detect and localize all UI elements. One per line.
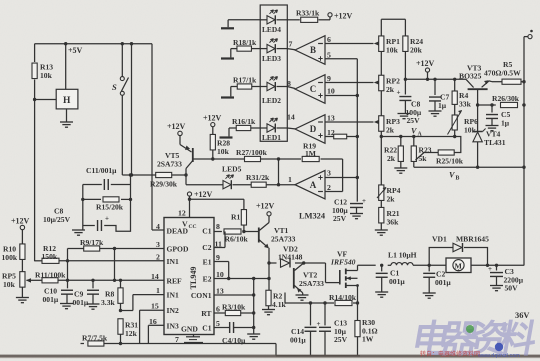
- resistor R28 10k: [210, 134, 230, 160]
- label VT1: [274, 226, 289, 235]
- svg-text:R3/10k: R3/10k: [222, 303, 246, 312]
- wire C plus row: [325, 87, 359, 98]
- wire R14 row left leg: [284, 293, 286, 304]
- svg-text:4.1k: 4.1k: [272, 300, 286, 309]
- svg-text:H: H: [63, 96, 71, 106]
- svg-text:2k: 2k: [387, 154, 396, 163]
- svg-text:8: 8: [216, 222, 220, 231]
- wire C11-R15 left leg: [82, 185, 84, 226]
- wire LED5 row: [186, 184, 295, 186]
- switch S: [112, 44, 129, 175]
- label pin7 B: [289, 40, 293, 49]
- ground RP5: [16, 298, 29, 303]
- resistor R17/1k: [233, 76, 257, 90]
- svg-text:3: 3: [156, 240, 160, 249]
- wire bottom rail left: [104, 343, 276, 345]
- svg-text:C: C: [310, 84, 317, 94]
- svg-text:LED1: LED1: [262, 133, 281, 142]
- diode VD1 MBR1645: [432, 235, 489, 253]
- svg-text:E2: E2: [203, 275, 212, 284]
- ground LED4: [221, 27, 234, 29]
- resistor R31 12k: [118, 319, 138, 345]
- capacitor C1 001u: [376, 265, 406, 291]
- resistor R15/20k: [81, 197, 132, 212]
- svg-text:R16/1k: R16/1k: [232, 117, 256, 126]
- label 25A733 VT1: [271, 235, 296, 244]
- svg-text:14: 14: [151, 272, 159, 281]
- wire VT5 emitter drop: [184, 169, 187, 185]
- resistor R29/30k: [150, 172, 178, 188]
- svg-text:1: 1: [156, 286, 160, 295]
- svg-text:GND: GND: [181, 325, 198, 334]
- wire IN2 row 15: [140, 310, 164, 343]
- svg-text:7: 7: [175, 335, 179, 344]
- resistor R22 2k: [384, 137, 403, 168]
- resistor R23 5k: [411, 137, 432, 168]
- label VD2: [283, 245, 298, 254]
- svg-text:14: 14: [287, 113, 295, 122]
- IC U1 TL949 box: [164, 218, 214, 335]
- svg-text:10k: 10k: [386, 45, 399, 54]
- wire gate Z: [304, 263, 340, 283]
- svg-text:10k: 10k: [3, 280, 16, 289]
- svg-text:A: A: [310, 180, 317, 190]
- LED LED5: [222, 165, 242, 190]
- label VT5: [165, 151, 180, 160]
- wire R9-REF drop: [114, 249, 116, 281]
- motor M: [446, 258, 471, 273]
- svg-text:50V: 50V: [505, 284, 519, 293]
- resistor R2 4.1k: [266, 290, 287, 309]
- wire +12V branch: [190, 199, 244, 210]
- svg-text:C4/10μ: C4/10μ: [222, 336, 246, 345]
- svg-text:R14/10k: R14/10k: [329, 293, 357, 302]
- transistor VT2: [294, 263, 304, 295]
- IC pin 7 ground: [175, 335, 203, 345]
- resistor R14/10k: [329, 293, 357, 306]
- svg-text:470Ω/0.5W: 470Ω/0.5W: [484, 69, 521, 78]
- wire bottom rail jog: [276, 344, 360, 356]
- svg-text:R17/1k: R17/1k: [233, 76, 257, 85]
- ground LED2: [221, 96, 234, 98]
- wire IN1 row 1: [119, 295, 164, 313]
- resistor R1: [231, 210, 247, 232]
- wire RP5 down: [21, 287, 23, 297]
- wire LED2 left: [231, 87, 260, 97]
- wire C11-R15 right leg: [129, 173, 132, 199]
- svg-text:1M: 1M: [305, 149, 316, 158]
- wire A output drop: [277, 159, 280, 186]
- svg-text:25A733: 25A733: [271, 235, 296, 244]
- wire B plus row: [325, 51, 357, 60]
- wire VT1 emitter column: [267, 248, 270, 292]
- op-amp B: [295, 36, 325, 65]
- resistor R27/100k: [236, 148, 268, 162]
- svg-text:www.dqwxzl.com: www.dqwxzl.com: [477, 353, 520, 359]
- svg-text:LED2: LED2: [262, 96, 281, 105]
- svg-text:6: 6: [327, 35, 331, 44]
- svg-text:LED3: LED3: [262, 54, 281, 63]
- wire LED3 left: [231, 49, 260, 58]
- svg-text:1μ: 1μ: [501, 118, 510, 127]
- ground C8 100u: [398, 114, 411, 119]
- LED LED3: [260, 39, 287, 63]
- svg-text:25V: 25V: [334, 335, 348, 344]
- mosfet VF IRF540: [340, 265, 359, 303]
- ground C4: [247, 328, 260, 340]
- svg-text:MBR1645: MBR1645: [456, 235, 489, 244]
- svg-text:3.3k: 3.3k: [101, 298, 115, 307]
- capacitor C8 10u: [43, 207, 109, 232]
- svg-text:R1: R1: [231, 213, 240, 222]
- svg-text:10k: 10k: [40, 71, 53, 80]
- power terminal +12V VT5: [167, 122, 186, 136]
- wire CON1 row: [214, 293, 255, 296]
- wire R10-RP5: [21, 260, 23, 272]
- svg-text:1: 1: [288, 175, 292, 184]
- wire R14 row: [285, 301, 359, 304]
- ground VT2: [296, 295, 309, 300]
- svg-text:36k: 36k: [387, 217, 400, 226]
- IC GND label: [181, 325, 198, 334]
- wire VB row: [414, 166, 524, 169]
- svg-text:+: +: [317, 320, 321, 328]
- wire IN3 row 16: [148, 325, 164, 343]
- power terminal +12V Vcc: [187, 190, 212, 201]
- wire R9 left leg: [66, 249, 69, 281]
- svg-text:2k: 2k: [386, 125, 395, 134]
- svg-text:LM324: LM324: [299, 212, 326, 221]
- LED LED4: [260, 10, 287, 34]
- wire VD2 row: [269, 261, 305, 264]
- ground LED1: [220, 136, 233, 138]
- wire R33 row: [287, 17, 330, 20]
- wire supply row: [404, 78, 466, 81]
- svg-text:001μ: 001μ: [43, 295, 59, 304]
- svg-text:9: 9: [216, 253, 220, 262]
- svg-text:IN3: IN3: [167, 321, 179, 330]
- wire plus bus V1: [356, 59, 358, 202]
- capacitor C10/001u: [43, 280, 74, 304]
- capacitor C13 10u: [317, 303, 348, 356]
- resistor R7/7.5k: [81, 334, 108, 347]
- LED LED1: [260, 118, 287, 142]
- svg-text:C1: C1: [202, 323, 211, 332]
- power terminal +12V left: [11, 217, 30, 245]
- svg-text:E1: E1: [203, 258, 212, 267]
- resistor D plus series: [334, 134, 347, 139]
- op-amp A: [295, 170, 325, 199]
- ground C2: [423, 293, 436, 298]
- svg-text:1W: 1W: [362, 335, 374, 344]
- regulator VT4 TL431: [473, 129, 486, 168]
- capacitor C9/001u: [73, 280, 100, 307]
- svg-text:R15/20k: R15/20k: [96, 203, 124, 212]
- svg-text:10k: 10k: [464, 125, 477, 134]
- svg-text:+5V: +5V: [68, 46, 83, 55]
- IC pin 2 IN1: [156, 252, 179, 266]
- node VB: [449, 171, 460, 182]
- svg-text:+12V: +12V: [194, 190, 213, 199]
- svg-text:150k: 150k: [42, 252, 58, 261]
- power terminal +12V supply: [416, 59, 435, 79]
- label 1N4148: [278, 252, 303, 261]
- ground R2: [262, 310, 275, 315]
- wire E2 row: [214, 278, 269, 280]
- ground C1: [375, 292, 388, 297]
- svg-text:+12V: +12V: [256, 202, 275, 211]
- svg-text:5: 5: [327, 51, 331, 60]
- svg-text:9: 9: [327, 74, 331, 83]
- svg-text:10k: 10k: [217, 147, 230, 156]
- IC pin 5 C1b: [202, 319, 220, 333]
- wire +5V rail: [35, 42, 152, 45]
- svg-text:100k: 100k: [2, 253, 18, 262]
- inductor L1 10uH: [388, 251, 417, 266]
- IC pin 14 REF: [151, 272, 182, 286]
- svg-text:转自：电器维修资料网: 转自：电器维修资料网: [420, 350, 480, 358]
- op-amp D: [295, 115, 325, 144]
- ground C5: [486, 126, 499, 131]
- svg-text:+: +: [105, 215, 109, 223]
- wire C minus row: [325, 74, 379, 85]
- resistor R33/1k: [296, 9, 320, 23]
- svg-text:+12V: +12V: [416, 59, 435, 68]
- IC pin 9 E1: [203, 253, 220, 267]
- power label +5V: [68, 46, 83, 55]
- wire RP top link: [381, 18, 405, 20]
- svg-text:C2: C2: [202, 243, 211, 252]
- wire D out: [287, 127, 295, 130]
- svg-text:LED4: LED4: [262, 25, 281, 34]
- power terminal +12V VT1: [256, 202, 275, 223]
- resistor R26/30k: [492, 94, 520, 108]
- capacitor C14 001u: [290, 303, 317, 356]
- IC pin 6 RT: [201, 305, 220, 319]
- wire D minus row: [325, 114, 379, 125]
- svg-text:001μ: 001μ: [73, 298, 89, 307]
- wire right rail: [522, 37, 528, 266]
- svg-text:DEAD: DEAD: [167, 226, 189, 235]
- svg-text:13: 13: [216, 287, 224, 296]
- svg-text:CC: CC: [189, 224, 197, 230]
- label IRF540: [330, 257, 356, 266]
- label VF: [337, 250, 347, 259]
- wire LED1 left: [229, 128, 260, 136]
- svg-text:2SA733: 2SA733: [157, 160, 182, 169]
- scan line bottom: [0, 355, 540, 359]
- svg-text:+12V: +12V: [11, 217, 30, 226]
- resistor R12: [42, 244, 60, 263]
- svg-text:15: 15: [151, 302, 159, 311]
- wire R27 row: [194, 157, 343, 191]
- op-amp C: [295, 75, 325, 104]
- IC label TL949: [189, 267, 198, 290]
- wire CON1 column: [252, 277, 255, 328]
- wire C out: [287, 87, 295, 89]
- wire pin5 row: [214, 326, 255, 329]
- svg-text:1μ: 1μ: [438, 101, 447, 110]
- svg-text:25V: 25V: [333, 214, 347, 223]
- svg-text:6: 6: [216, 305, 220, 314]
- label BO325: [459, 71, 482, 80]
- svg-text:BO325: BO325: [459, 71, 482, 80]
- svg-text:10μ/25V: 10μ/25V: [43, 215, 71, 224]
- resistor R30 0.1ohm: [355, 303, 378, 356]
- wire VT5 collector: [179, 136, 181, 145]
- svg-text:12k: 12k: [125, 329, 138, 338]
- resistor R5 470: [484, 60, 524, 84]
- svg-text:TL431: TL431: [484, 138, 506, 147]
- power terminal +12V R33: [328, 12, 353, 21]
- svg-text:R25/10k: R25/10k: [436, 156, 464, 165]
- svg-text:25V: 25V: [407, 116, 421, 125]
- svg-text:5: 5: [216, 319, 220, 328]
- resistor R25/10k: [416, 137, 464, 166]
- diode VD2 1N4148: [281, 259, 291, 268]
- wire LED4 left: [228, 20, 260, 27]
- svg-text:B: B: [456, 176, 460, 182]
- svg-text:2: 2: [156, 252, 160, 261]
- watermark dot green: [466, 325, 474, 333]
- svg-text:GPOD: GPOD: [167, 245, 189, 254]
- label pin8 C: [287, 79, 291, 88]
- label 2SA733 VT2: [299, 279, 324, 288]
- potentiometer RP5: [2, 272, 31, 290]
- svg-text:B: B: [310, 45, 316, 55]
- svg-text:16: 16: [149, 317, 157, 326]
- ground R21: [375, 230, 388, 235]
- svg-text:RT: RT: [201, 309, 211, 318]
- resistor R19 1M: [302, 142, 319, 162]
- freewheel loop VD1: [429, 248, 487, 266]
- resistor R6/10k: [224, 229, 248, 244]
- resistor R18/1k: [233, 38, 257, 51]
- wire GPOD row: [68, 247, 165, 250]
- svg-text:5k: 5k: [419, 154, 428, 163]
- capacitor C4/10u: [222, 322, 246, 345]
- ground C10: [60, 304, 73, 309]
- LED LED2: [260, 77, 287, 106]
- capacitor C3 2200u: [488, 265, 524, 293]
- resistor R21 36k: [379, 207, 400, 229]
- wire B minus row: [325, 35, 379, 46]
- wire motor row: [358, 264, 525, 267]
- resistor R8 3.3k: [101, 280, 123, 310]
- resistor R3/10k: [222, 303, 246, 316]
- resistor R10: [2, 244, 26, 262]
- IC pin 3 GPOD: [156, 240, 189, 254]
- ground C8 left: [72, 226, 85, 236]
- ground C9: [87, 304, 100, 309]
- LED column box: [260, 5, 287, 141]
- svg-text:IN1: IN1: [167, 257, 179, 266]
- svg-text:VD1: VD1: [432, 235, 447, 244]
- ground C7: [429, 111, 442, 116]
- wire RT row: [214, 312, 254, 314]
- svg-text:10: 10: [327, 87, 335, 96]
- wire A plus row: [325, 169, 359, 180]
- svg-text:IRF540: IRF540: [330, 257, 356, 266]
- ground LED3: [221, 57, 234, 59]
- svg-text:+: +: [397, 89, 401, 97]
- potentiometer RP2 2k: [379, 75, 400, 94]
- wire RP6 down: [453, 130, 456, 138]
- IC pin 8 C1: [202, 222, 220, 235]
- wire RP column: [380, 19, 383, 207]
- svg-text:R6/10k: R6/10k: [225, 235, 249, 244]
- label VT2: [303, 271, 318, 280]
- hall sensor H: [35, 44, 78, 122]
- capacitor C12 100u: [332, 197, 366, 223]
- svg-text:LED5: LED5: [222, 165, 242, 174]
- svg-text:+12V: +12V: [203, 114, 222, 123]
- transistor VT5: [180, 145, 193, 169]
- svg-text:R7/7.5k: R7/7.5k: [82, 334, 108, 343]
- resistor R31/2k: [246, 173, 270, 187]
- label VT4: [486, 130, 501, 139]
- svg-text:7: 7: [289, 40, 293, 49]
- ground C12: [350, 214, 363, 219]
- IC pin 1 IN1b: [156, 286, 179, 300]
- capacitor C11/001u: [83, 166, 131, 190]
- wire E1 row: [214, 262, 230, 281]
- IC pin 15 IN2: [151, 302, 179, 316]
- label TL431: [484, 138, 506, 147]
- wire pin11 stub: [214, 232, 225, 248]
- IC pin 12 Vcc: [178, 196, 197, 230]
- wire switch row: [122, 173, 186, 176]
- svg-text:R31/2k: R31/2k: [246, 173, 270, 182]
- label pin14 D: [287, 113, 295, 122]
- svg-text:13: 13: [327, 114, 335, 123]
- svg-text:001μ: 001μ: [290, 335, 306, 344]
- svg-text:R33/1k: R33/1k: [296, 9, 320, 18]
- wire left rail: [33, 44, 36, 262]
- resistor R4 33k: [452, 79, 471, 108]
- transistor VT1: [259, 223, 269, 249]
- svg-text:2k: 2k: [387, 195, 396, 204]
- svg-text:20k: 20k: [410, 45, 423, 54]
- watermark small text: [420, 350, 520, 359]
- potentiometer RP1 10k: [379, 36, 400, 54]
- ground R22: [394, 168, 407, 173]
- transistor VT3 BO325: [466, 79, 492, 89]
- resistor R11/100k: [35, 271, 66, 283]
- svg-text:33k: 33k: [459, 99, 472, 108]
- svg-text:R26/30k: R26/30k: [492, 94, 520, 103]
- label 36V: [515, 311, 529, 320]
- svg-text:1N4148: 1N4148: [278, 252, 303, 261]
- svg-text:D: D: [310, 124, 317, 134]
- svg-text:2SA733: 2SA733: [299, 279, 324, 288]
- svg-text:S: S: [112, 82, 117, 92]
- svg-text:R29/30k: R29/30k: [150, 180, 178, 189]
- potentiometer RP4 2k: [377, 185, 401, 204]
- svg-text:R18/1k: R18/1k: [233, 38, 257, 47]
- svg-text:10: 10: [216, 270, 224, 279]
- svg-text:R11/100k: R11/100k: [35, 271, 66, 280]
- wire B out: [287, 49, 295, 50]
- IC pin 16 IN3: [149, 317, 179, 331]
- resistor R9/17k: [80, 238, 104, 251]
- node VA: [411, 127, 423, 138]
- svg-text:IN2: IN2: [167, 306, 179, 315]
- svg-text:12: 12: [178, 209, 186, 218]
- wire VA row: [381, 135, 454, 138]
- svg-text:REF: REF: [167, 276, 183, 285]
- svg-text:2k: 2k: [386, 85, 395, 94]
